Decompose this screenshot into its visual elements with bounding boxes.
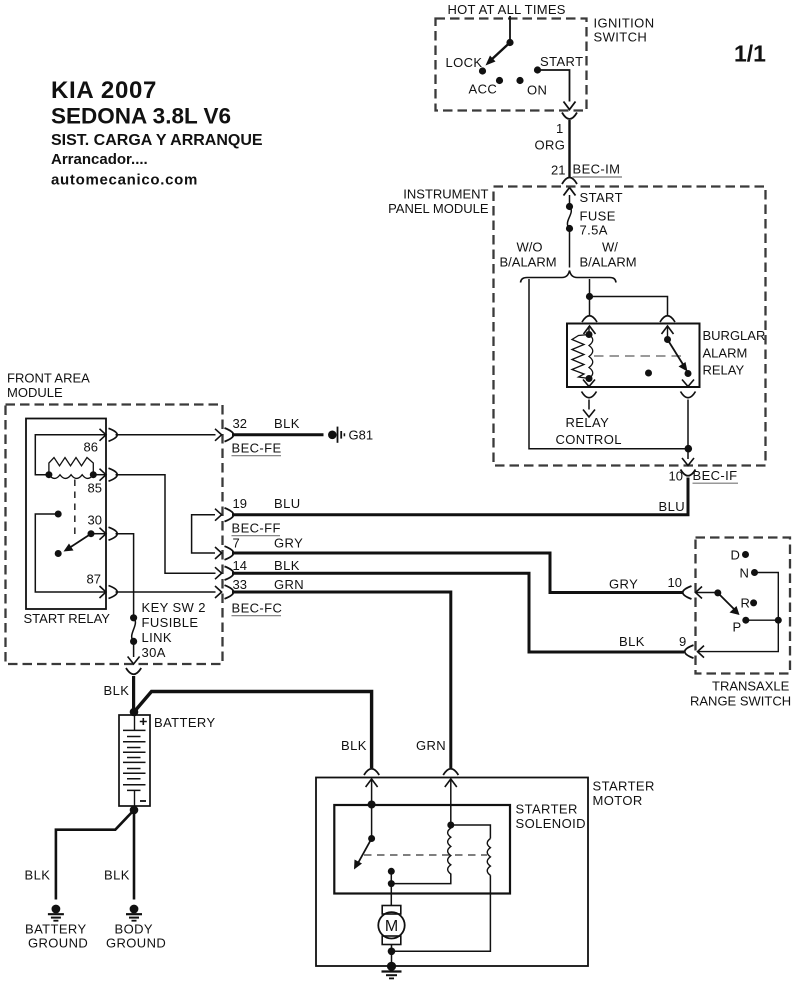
svg-text:IGNITION: IGNITION xyxy=(594,16,655,31)
wire jumper pin 19 to pin 7 xyxy=(192,515,215,553)
wire starter BLK down xyxy=(371,779,373,839)
front area module dashed box xyxy=(6,371,223,665)
svg-text:KEY SW 2: KEY SW 2 xyxy=(142,600,206,615)
wire pin 87 to BEC pin 33 xyxy=(116,591,216,593)
svg-text:W/O: W/O xyxy=(517,240,543,255)
label W/ B/ALARM xyxy=(580,240,637,270)
relay contact NO xyxy=(645,370,652,377)
svg-text:19: 19 xyxy=(233,496,247,511)
svg-text:LINK: LINK xyxy=(142,630,173,645)
svg-text:N: N xyxy=(740,566,749,581)
svg-text:RELAY: RELAY xyxy=(703,363,745,378)
wire battery negative to battery ground xyxy=(56,810,134,900)
connector arrow out of front area module xyxy=(128,657,140,665)
connector pin 9 arrow xyxy=(698,646,705,658)
svg-text:BLK: BLK xyxy=(274,416,300,431)
starter motor box xyxy=(316,778,655,967)
svg-text:30A: 30A xyxy=(142,645,166,660)
solenoid switch contact xyxy=(388,868,395,875)
wire START output xyxy=(538,70,570,102)
svg-text:D: D xyxy=(731,548,740,563)
svg-text:BLK: BLK xyxy=(619,634,645,649)
svg-text:ON: ON xyxy=(527,83,547,98)
wire relay pin 86 internal xyxy=(35,435,106,475)
wire pin 30 to fusible link xyxy=(116,534,134,618)
connector arrow out of instrument panel xyxy=(682,458,694,466)
solenoid dashed link xyxy=(364,854,487,856)
connector arrow starter BLK xyxy=(366,779,378,787)
node solenoid coil top xyxy=(447,822,454,829)
contact ON xyxy=(516,77,523,84)
wire starter GRN down xyxy=(450,779,452,825)
connector pin 1 socket xyxy=(562,113,577,120)
node relay output junction xyxy=(685,445,693,453)
wire hold-in coil to motor return xyxy=(392,875,491,951)
wire contact down xyxy=(390,871,392,883)
svg-text:BLU: BLU xyxy=(659,499,686,514)
ground G81 xyxy=(328,427,373,443)
svg-text:GROUND: GROUND xyxy=(106,936,166,951)
svg-text:P: P xyxy=(733,620,742,635)
svg-text:automecanico.com: automecanico.com xyxy=(51,172,198,189)
contact R xyxy=(750,599,757,606)
relay coil resistor xyxy=(45,458,96,479)
svg-text:BEC-FF: BEC-FF xyxy=(232,521,281,536)
motor M1 xyxy=(378,884,404,952)
instrument panel module dashed box xyxy=(388,187,765,466)
svg-text:G81: G81 xyxy=(349,428,374,443)
start relay switch contact lower xyxy=(55,550,62,557)
BEC pin 14 connector xyxy=(215,558,300,580)
svg-text:GRY: GRY xyxy=(609,577,638,592)
svg-text:SIST. CARGA Y ARRANQUE: SIST. CARGA Y ARRANQUE xyxy=(51,132,263,149)
svg-text:GRN: GRN xyxy=(416,738,446,753)
svg-text:85: 85 xyxy=(88,481,102,496)
contact LOCK xyxy=(479,67,486,74)
svg-text:BEC-IF: BEC-IF xyxy=(693,468,738,483)
connector socket BEC-IF xyxy=(681,470,696,476)
svg-text:FUSE: FUSE xyxy=(580,209,616,224)
wire W/O branch down and right to relay output node xyxy=(529,279,688,449)
svg-text:BLK: BLK xyxy=(104,868,130,883)
svg-text:RELAY: RELAY xyxy=(566,415,610,430)
burglar alarm relay box xyxy=(567,324,765,388)
wire battery to starter feed xyxy=(134,692,372,769)
svg-text:B/ALARM: B/ALARM xyxy=(500,255,557,270)
svg-text:KIA 2007: KIA 2007 xyxy=(51,77,157,104)
svg-text:GROUND: GROUND xyxy=(28,936,88,951)
connector pin 10 arrow xyxy=(696,587,703,599)
svg-text:SEDONA 3.8L V6: SEDONA 3.8L V6 xyxy=(51,104,231,129)
brace wire split xyxy=(521,271,617,283)
svg-text:10: 10 xyxy=(668,575,682,590)
contact START xyxy=(534,66,541,73)
svg-text:MODULE: MODULE xyxy=(7,385,63,400)
wire 32 BLK to G81 xyxy=(232,433,324,436)
svg-text:BEC-FC: BEC-FC xyxy=(232,601,283,616)
svg-text:SOLENOID: SOLENOID xyxy=(516,816,586,831)
connector arrow starter GRN xyxy=(445,779,457,787)
fuse START FUSE 7.5A xyxy=(566,190,623,238)
svg-text:33: 33 xyxy=(233,577,247,592)
wire fuse to module edge xyxy=(133,641,135,657)
connector arrow relay switch in xyxy=(662,326,674,334)
svg-text:STARTER: STARTER xyxy=(516,802,578,817)
svg-text:BURGLAR: BURGLAR xyxy=(703,328,766,343)
BEC pin 7 connector xyxy=(215,536,303,560)
battery B1 xyxy=(119,715,216,806)
svg-text:LOCK: LOCK xyxy=(446,55,483,70)
node battery positive xyxy=(130,708,139,717)
wire to relay switch terminal xyxy=(590,297,668,316)
BEC pin 33 connector xyxy=(215,577,304,616)
svg-text:M: M xyxy=(385,918,398,935)
svg-text:GRN: GRN xyxy=(274,577,304,592)
pin 87 arrow and socket xyxy=(100,586,118,599)
svg-text:14: 14 xyxy=(233,558,247,573)
start relay switch arm xyxy=(64,530,95,551)
wire pin 85 to BEC pin 14 xyxy=(116,475,216,574)
pin 85 arrow and socket xyxy=(100,468,118,481)
svg-text:BODY: BODY xyxy=(115,922,153,937)
wire GRN run to starter xyxy=(232,592,451,768)
title block text xyxy=(51,77,263,189)
ground starter motor xyxy=(382,962,402,979)
wire coil to pin 85 xyxy=(93,474,106,476)
svg-text:START RELAY: START RELAY xyxy=(24,611,111,626)
svg-text:BLK: BLK xyxy=(274,558,300,573)
svg-text:B/ALARM: B/ALARM xyxy=(580,255,637,270)
contact ACC xyxy=(496,77,503,84)
node ignition pivot xyxy=(506,39,513,46)
svg-text:BATTERY: BATTERY xyxy=(25,922,87,937)
fuse KEY SW 2 FUSIBLE LINK 30A xyxy=(130,600,206,660)
relay switch xyxy=(664,326,692,377)
node P-N junction xyxy=(775,617,782,624)
node battery negative xyxy=(130,806,139,815)
contact P xyxy=(742,617,749,624)
connector pin 10 socket xyxy=(683,586,692,599)
wire into start fuse xyxy=(569,195,571,206)
svg-text:BLU: BLU xyxy=(274,496,301,511)
solenoid switch arm xyxy=(354,839,372,870)
wire to relay coil terminal xyxy=(589,297,591,316)
svg-text:87: 87 xyxy=(87,572,101,587)
ground battery ground xyxy=(25,905,88,951)
wire contact to 87 rail xyxy=(35,514,106,592)
ignition switch arm to LOCK xyxy=(486,43,511,66)
connector arrow relay coil in xyxy=(584,326,596,334)
connector pin 21 socket into instrument panel xyxy=(562,178,577,185)
connector arrow relay control out xyxy=(583,380,595,387)
transaxle range switch dashed box xyxy=(690,538,791,709)
label 21 BEC-IM xyxy=(551,162,622,178)
svg-text:32: 32 xyxy=(233,416,247,431)
svg-text:1/1: 1/1 xyxy=(734,41,766,67)
start relay switch contact upper xyxy=(55,511,62,518)
svg-text:TRANSAXLE: TRANSAXLE xyxy=(712,679,790,694)
wire P and N common xyxy=(698,573,779,652)
svg-text:BEC-IM: BEC-IM xyxy=(573,162,621,177)
wire pin 86 to BEC pin 32 xyxy=(116,434,216,436)
transaxle switch pivot xyxy=(714,589,721,596)
label RELAY CONTROL xyxy=(556,415,622,447)
contact N xyxy=(751,569,758,576)
svg-text:Arrancador....: Arrancador.... xyxy=(51,151,148,168)
label 10 BEC-IF xyxy=(669,468,739,484)
svg-text:ORG: ORG xyxy=(535,138,566,153)
wire GRY run to transaxle xyxy=(232,553,683,593)
connector pin 21 arrow xyxy=(564,188,576,196)
svg-text:HOT AT ALL TIMES: HOT AT ALL TIMES xyxy=(448,2,566,17)
wire pin 10 to pivot xyxy=(696,592,718,594)
relay internal dashed link xyxy=(594,355,681,357)
node solenoid feed xyxy=(368,801,376,809)
wire BLU from BEC-IF to pin 19 xyxy=(232,478,688,515)
svg-text:SWITCH: SWITCH xyxy=(594,30,648,45)
svg-text:GRY: GRY xyxy=(274,536,303,551)
ground body ground xyxy=(106,905,166,951)
node W/ split xyxy=(586,293,593,300)
pin 30 arrow and socket xyxy=(91,527,117,540)
node solenoid switch pivot xyxy=(368,835,375,842)
svg-text:R: R xyxy=(741,596,750,611)
connector pin 1 arrow out of ignition switch xyxy=(564,102,576,110)
relay coil xyxy=(572,326,593,382)
label BLK 9 xyxy=(619,634,686,649)
wire motor return to ground xyxy=(391,951,393,966)
label GRY 10 xyxy=(609,575,682,592)
wire relay output down xyxy=(687,400,689,460)
wire relay control arrow xyxy=(583,400,595,418)
svg-text:MOTOR: MOTOR xyxy=(593,793,643,808)
wire BLK run to transaxle xyxy=(232,573,684,652)
svg-text:BATTERY: BATTERY xyxy=(154,715,216,730)
svg-text:CONTROL: CONTROL xyxy=(556,432,622,447)
label W/O B/ALARM xyxy=(500,240,557,270)
connector socket relay output xyxy=(681,392,696,398)
pin 86 arrow and socket xyxy=(100,428,118,441)
svg-text:21: 21 xyxy=(551,163,565,178)
svg-text:10: 10 xyxy=(669,469,683,484)
svg-text:1: 1 xyxy=(556,121,563,136)
connector socket relay control xyxy=(582,392,597,398)
svg-text:ALARM: ALARM xyxy=(703,346,748,361)
connector arrow relay output xyxy=(682,380,694,387)
svg-text:BEC-FE: BEC-FE xyxy=(232,441,282,456)
starter solenoid box xyxy=(334,802,586,894)
wire fuse to brace xyxy=(569,229,571,268)
svg-text:86: 86 xyxy=(84,440,98,455)
svg-text:BLK: BLK xyxy=(104,683,130,698)
start relay dashed link xyxy=(74,480,76,540)
svg-text:9: 9 xyxy=(679,634,686,649)
svg-text:FRONT AREA: FRONT AREA xyxy=(7,371,90,386)
svg-text:STARTER: STARTER xyxy=(593,779,655,794)
connector socket starter BLK in xyxy=(364,769,379,775)
svg-text:W/: W/ xyxy=(602,240,618,255)
wire ORG xyxy=(568,120,570,178)
svg-text:7.5A: 7.5A xyxy=(580,223,608,238)
solenoid pull-in coil xyxy=(448,825,451,874)
svg-text:BLK: BLK xyxy=(341,738,367,753)
ignition switch dashed box xyxy=(436,16,655,111)
svg-text:ACC: ACC xyxy=(469,82,498,97)
wire hot feed into ignition switch xyxy=(509,16,511,43)
solenoid hold-in coil xyxy=(487,839,490,876)
svg-text:PANEL MODULE: PANEL MODULE xyxy=(388,201,489,216)
wire motor feed to pull-in coil xyxy=(391,874,451,884)
contact D xyxy=(742,551,749,558)
node motor return xyxy=(388,948,396,956)
start relay box xyxy=(24,419,111,627)
node motor feed xyxy=(388,880,395,887)
wire hold-in branch xyxy=(451,825,491,839)
BEC pin 32 connector xyxy=(215,416,300,456)
svg-text:RANGE SWITCH: RANGE SWITCH xyxy=(690,694,791,709)
connector pin 9 socket xyxy=(685,645,694,658)
svg-text:INSTRUMENT: INSTRUMENT xyxy=(403,187,488,202)
wire W/ branch xyxy=(589,279,591,297)
svg-text:START: START xyxy=(540,54,583,69)
BEC pin 19 connector xyxy=(215,496,301,536)
transaxle switch arm xyxy=(718,593,740,615)
svg-text:FUSIBLE: FUSIBLE xyxy=(142,615,199,630)
svg-text:30: 30 xyxy=(88,513,102,528)
svg-text:START: START xyxy=(580,190,623,205)
svg-text:7: 7 xyxy=(233,536,240,551)
connector socket relay switch in xyxy=(660,316,675,322)
connector socket battery feed xyxy=(126,668,141,674)
connector socket relay coil in xyxy=(582,316,597,322)
connector socket starter GRN in xyxy=(443,769,458,775)
wire battery negative to body ground xyxy=(133,810,136,900)
svg-text:BLK: BLK xyxy=(25,868,51,883)
wire battery feed BLK xyxy=(132,676,135,712)
